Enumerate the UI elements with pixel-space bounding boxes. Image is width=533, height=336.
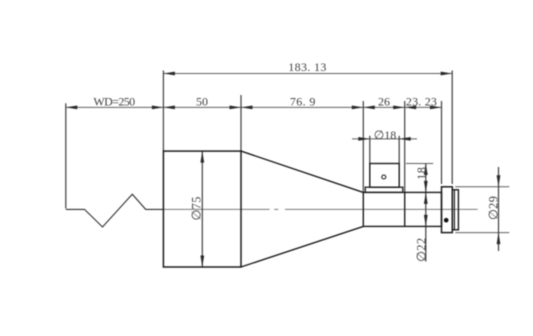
dimension 18 / Ø22 vertical line xyxy=(425,164,427,262)
mount flange (Ø29) xyxy=(442,187,453,233)
extension line WD left (object plane) xyxy=(65,103,67,208)
arrow Ø22 bottom xyxy=(424,215,428,227)
arrow Ø18 left (outside) xyxy=(358,137,370,141)
svg-text:WD=250: WD=250 xyxy=(93,95,135,109)
extension line barrel step xyxy=(404,101,406,226)
centerline dot xyxy=(274,208,278,210)
centerline right segment xyxy=(285,208,478,210)
arrow Ø22 top xyxy=(424,192,428,204)
dimension line 183.13 xyxy=(163,73,452,75)
arrow Ø29 top (outside) xyxy=(497,175,501,187)
arrow 183.13 left xyxy=(163,72,175,76)
arrow 183.13 right xyxy=(441,72,453,76)
dimension Ø29 vertical line xyxy=(498,167,500,251)
svg-text:183. 13: 183. 13 xyxy=(288,60,326,74)
dimension Ø29 extension bottom xyxy=(455,232,509,234)
extension line flange right / 183.13 right xyxy=(451,71,453,185)
arrow WD right xyxy=(152,106,164,110)
svg-text:23. 23: 23. 23 xyxy=(406,95,437,109)
rear block inner edge xyxy=(453,190,455,230)
arrow 23.23 right xyxy=(430,106,442,110)
arrow Ø75 top xyxy=(200,151,204,163)
arrow 26 left xyxy=(363,106,375,110)
barrel step line xyxy=(404,192,406,226)
svg-text:18: 18 xyxy=(415,167,429,180)
svg-text:∅22: ∅22 xyxy=(414,237,428,262)
camera port box (Ø18) xyxy=(370,164,399,188)
arrow Ø75 bottom xyxy=(200,256,204,268)
extension line hood right corner xyxy=(240,95,242,151)
arrow WD left xyxy=(66,106,78,110)
svg-text:50: 50 xyxy=(196,95,208,109)
dimension 18 extension (from port top, to the right) xyxy=(406,163,433,165)
svg-text:∅18: ∅18 xyxy=(374,128,396,142)
cone top edge xyxy=(241,151,363,192)
arrow 18 bottom xyxy=(424,181,428,193)
rear block xyxy=(452,190,458,230)
dimension line row (WD=250 / 50 / 76.9 / 26 / 23.23) xyxy=(66,106,442,108)
arrow 76.9 right xyxy=(352,106,364,110)
arrow 18 top xyxy=(424,164,428,176)
arrow 50 right xyxy=(230,106,242,110)
extension line flange left xyxy=(441,101,443,184)
centerline (optical axis, dash-dot) xyxy=(164,208,270,210)
arrow Ø29 bottom (outside) xyxy=(497,233,501,245)
set screw dot on flange xyxy=(444,218,449,223)
arrow 76.9 left xyxy=(241,106,253,110)
set screw hole on port xyxy=(382,175,386,179)
arrow 26 right xyxy=(393,106,405,110)
arrow 50 left xyxy=(163,106,175,110)
barrel cylinder (Ø22) xyxy=(363,192,441,226)
Ø18 extension left xyxy=(369,136,371,164)
dimension Ø18 line xyxy=(352,138,417,140)
svg-text:76. 9: 76. 9 xyxy=(290,95,316,109)
extension line cone tip / barrel start xyxy=(362,101,364,192)
arrow Ø18 right (outside) xyxy=(399,137,411,141)
object-plane break line (zigzag) xyxy=(66,194,164,227)
svg-text:26: 26 xyxy=(378,95,390,109)
cone bottom edge xyxy=(241,226,363,267)
svg-text:∅75: ∅75 xyxy=(189,196,203,221)
dimension Ø75 vertical line xyxy=(201,151,203,267)
Ø18 extension right xyxy=(398,136,400,164)
lens hood rectangle (Ø75 body) xyxy=(163,151,241,267)
extension line above hood left corner xyxy=(162,71,164,152)
arrow 23.23 left xyxy=(405,106,417,110)
port base plate xyxy=(365,187,403,192)
dimension Ø29 extension top xyxy=(455,186,509,188)
svg-text:∅29: ∅29 xyxy=(487,196,501,221)
